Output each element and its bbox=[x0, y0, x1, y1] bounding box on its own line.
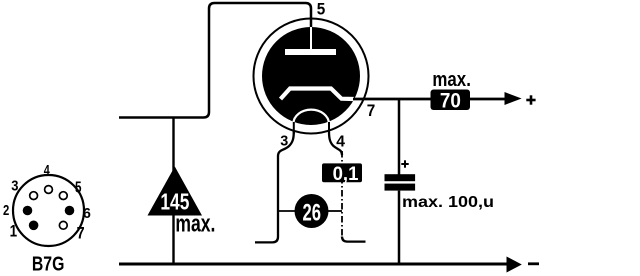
transformer winding voltage triangle 145 V bbox=[148, 167, 203, 216]
rectifier tube V1 envelope bbox=[254, 19, 369, 134]
capacitor polarity + mark bbox=[401, 160, 408, 167]
svg-text:6: 6 bbox=[83, 205, 91, 222]
wire: HT transformer lead from input to tube anode pin 5 bbox=[119, 3, 311, 118]
svg-text:5: 5 bbox=[317, 0, 326, 19]
wire: heater pin 4 lead dash-dot section bbox=[341, 151, 343, 237]
svg-text:3: 3 bbox=[11, 178, 18, 195]
wire: heater supply right segment bbox=[328, 210, 343, 212]
tube socket B7G outline bbox=[13, 175, 84, 246]
wire: heater pin 3 lead with open stub bbox=[255, 132, 294, 243]
wire: bottom negative rail bbox=[119, 263, 507, 266]
socket pin 5 (open) bbox=[59, 192, 67, 200]
svg-text:5: 5 bbox=[75, 179, 82, 196]
series resistance box 0,1 bbox=[322, 163, 362, 185]
wire: HT winding lead through 145 triangle bbox=[172, 118, 174, 265]
socket pin 1 (filled) bbox=[29, 221, 39, 231]
svg-text:4: 4 bbox=[44, 162, 50, 179]
socket pin 6 (filled) bbox=[65, 206, 75, 216]
socket pin 3 (open) bbox=[30, 192, 38, 200]
anode plate (pin 5) bbox=[285, 49, 336, 55]
wire: heater pin 4 lead upper curve bbox=[329, 132, 342, 156]
heater leg pin 4 through envelope bbox=[328, 122, 330, 134]
svg-text:B7G: B7G bbox=[32, 254, 65, 276]
capacitor C1 positive plate bbox=[385, 174, 416, 181]
cathode electrode (pin 7) bbox=[281, 89, 355, 100]
svg-text:70: 70 bbox=[440, 89, 461, 112]
svg-text:2: 2 bbox=[3, 202, 9, 219]
tube internal body (black fill) bbox=[262, 27, 360, 125]
wire: cathode output line to + terminal bbox=[353, 98, 505, 101]
wire: capacitor negative lead to bottom rail bbox=[398, 191, 401, 264]
heater winding voltage circle 26 V bbox=[295, 194, 329, 228]
max DC output current box 70 bbox=[431, 89, 471, 112]
svg-text:26: 26 bbox=[303, 200, 322, 227]
socket pin 4 (open) bbox=[45, 186, 53, 194]
minus terminal label bbox=[528, 262, 539, 265]
svg-text:max. 100,u: max. 100,u bbox=[402, 194, 494, 211]
svg-text:1: 1 bbox=[10, 222, 18, 241]
wire: heater supply left segment bbox=[278, 210, 296, 212]
svg-text:7: 7 bbox=[77, 224, 85, 243]
svg-text:max.: max. bbox=[175, 211, 215, 238]
socket pin 2 (filled) bbox=[23, 206, 33, 216]
anode lead inside envelope bbox=[310, 27, 312, 50]
wire: reservoir capacitor positive lead bbox=[398, 99, 401, 175]
heater leg pin 3 through envelope bbox=[293, 122, 295, 134]
arrow: - output terminal bbox=[507, 257, 522, 273]
svg-text:max.: max. bbox=[432, 69, 471, 91]
heater filament dome bbox=[293, 110, 329, 124]
svg-text:7: 7 bbox=[367, 101, 376, 120]
wire: heater pin 4 open stub bbox=[342, 237, 366, 242]
arrow: + output terminal bbox=[505, 92, 522, 105]
capacitor C1 negative plate bbox=[385, 184, 416, 191]
+ terminal label bbox=[526, 95, 535, 104]
svg-text:0,1: 0,1 bbox=[333, 164, 359, 185]
socket pin 7 (open) bbox=[59, 221, 67, 229]
